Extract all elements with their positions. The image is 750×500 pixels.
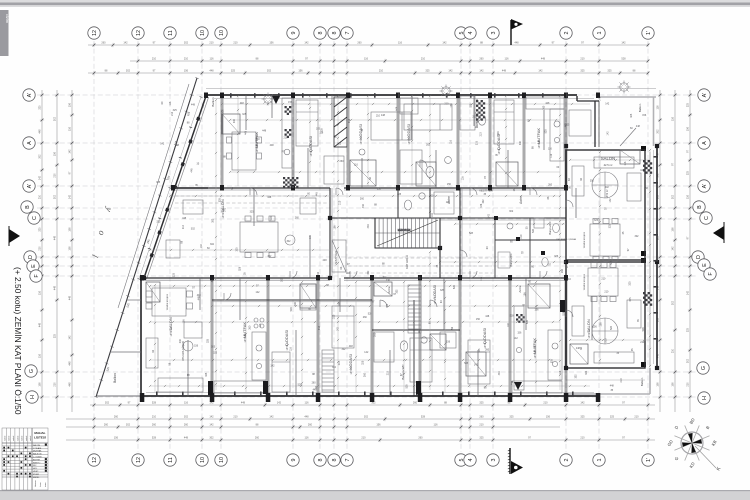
svg-text:12: 12 — [136, 457, 142, 463]
svg-text:448: 448 — [323, 259, 328, 262]
grid bubble left axis B — [21, 201, 33, 213]
svg-text:mahal: mahal — [30, 435, 32, 441]
left dimension chain 3 — [69, 90, 75, 412]
bottom band partition walls — [210, 278, 212, 396]
svg-text:156: 156 — [642, 114, 647, 117]
grid bubble bottom axis 10 — [215, 454, 227, 466]
grid bubble top axis 11 — [164, 27, 176, 39]
svg-text:E: E — [702, 263, 708, 267]
svg-text:302: 302 — [482, 199, 485, 204]
svg-text:9: 9 — [291, 459, 297, 462]
svg-text:302: 302 — [212, 218, 215, 223]
svg-text:142: 142 — [200, 244, 203, 249]
svg-text:cizim: cizim — [5, 14, 10, 24]
svg-text:mahal: mahal — [26, 435, 28, 441]
svg-text:156: 156 — [687, 126, 690, 131]
svg-text:116: 116 — [434, 424, 439, 427]
svg-text:142: 142 — [160, 142, 165, 145]
svg-text:116: 116 — [398, 42, 403, 45]
svg-text:Balkon: Balkon — [113, 373, 117, 383]
svg-text:210: 210 — [580, 58, 585, 61]
grid bubble left axis C — [28, 212, 40, 224]
svg-text:260: 260 — [363, 316, 368, 319]
grid bubble top axis 2 — [560, 27, 572, 39]
svg-text:142: 142 — [514, 337, 519, 340]
svg-text:142: 142 — [687, 290, 690, 295]
svg-text:116: 116 — [431, 194, 435, 197]
svg-text:302: 302 — [396, 289, 399, 294]
svg-text:VEST.: VEST. — [33, 471, 39, 473]
closet and partition details — [146, 95, 640, 396]
svg-text:142: 142 — [209, 416, 214, 419]
svg-text:142: 142 — [507, 322, 510, 327]
svg-text:döseme: döseme — [35, 480, 37, 487]
svg-text:325: 325 — [610, 416, 615, 419]
svg-text:14.52 m²: 14.52 m² — [588, 329, 591, 338]
svg-text:14.52 m²: 14.52 m² — [360, 135, 363, 144]
bottom window chrome bar — [0, 490, 750, 500]
salon block bottom-right walls — [566, 262, 645, 368]
grid bubble left axis E — [27, 260, 39, 272]
svg-text:210: 210 — [543, 402, 548, 405]
svg-text:210: 210 — [348, 118, 351, 123]
svg-text:448: 448 — [267, 196, 272, 199]
svg-text:448: 448 — [610, 384, 615, 387]
structural columns — [140, 93, 659, 403]
svg-text:448: 448 — [54, 285, 57, 290]
svg-text:528: 528 — [239, 266, 242, 271]
grid bubble bottom axis 5 — [455, 454, 467, 466]
svg-text:325: 325 — [222, 109, 225, 114]
grid bubble left axis F — [30, 270, 42, 282]
svg-text:210: 210 — [634, 416, 639, 419]
svg-text:325: 325 — [594, 219, 599, 222]
svg-text:210: 210 — [39, 246, 42, 251]
svg-text:E: E — [31, 264, 37, 268]
svg-text:260: 260 — [357, 42, 362, 45]
svg-text:mahal: mahal — [13, 435, 15, 441]
svg-text:156: 156 — [657, 382, 660, 387]
svg-text:7: 7 — [345, 459, 351, 462]
svg-text:C: C — [704, 216, 710, 220]
svg-text:302: 302 — [191, 227, 196, 230]
site boundary diagonal line — [94, 77, 199, 398]
svg-text:325: 325 — [250, 210, 255, 213]
svg-text:210: 210 — [202, 103, 205, 108]
svg-text:142: 142 — [605, 102, 610, 105]
interior dimension chains — [149, 95, 651, 392]
svg-text:325: 325 — [440, 289, 445, 292]
svg-text:Antre: Antre — [447, 196, 451, 204]
svg-text:448: 448 — [240, 102, 245, 105]
balcony bottom right — [566, 368, 650, 394]
svg-text:260: 260 — [101, 42, 106, 45]
building outer walls — [206, 94, 577, 96]
salon right facade inner line — [649, 152, 651, 366]
svg-text:mahal: mahal — [9, 435, 11, 441]
svg-text:156: 156 — [298, 70, 303, 73]
marker triangle left edge — [9, 226, 20, 246]
svg-text:448: 448 — [54, 235, 57, 240]
svg-text:302: 302 — [184, 42, 189, 45]
svg-text:4: 4 — [468, 459, 474, 462]
dark door jambs bottom wall — [208, 300, 565, 395]
grid bubble top axis 8 — [314, 27, 326, 39]
svg-text:1': 1' — [646, 31, 652, 35]
svg-text:210: 210 — [379, 70, 384, 73]
svg-text:325: 325 — [554, 255, 559, 258]
svg-text:156: 156 — [184, 70, 189, 73]
svg-text:116: 116 — [210, 58, 215, 61]
marker triangle right edge — [713, 222, 724, 243]
svg-text:(+ 2.50 kotu) ZEMİN KAT PLANI: (+ 2.50 kotu) ZEMİN KAT PLANI Ö:1/50 — [13, 267, 23, 415]
svg-text:302: 302 — [364, 416, 369, 419]
svg-text:14.52 m²: 14.52 m² — [310, 147, 313, 156]
svg-text:210: 210 — [233, 42, 238, 45]
svg-text:B: B — [25, 205, 31, 209]
svg-text:325: 325 — [156, 181, 161, 184]
svg-text:528: 528 — [610, 325, 613, 330]
svg-text:156: 156 — [672, 227, 675, 232]
svg-text:A: A — [702, 141, 708, 145]
svg-text:302: 302 — [635, 235, 640, 238]
svg-text:260: 260 — [104, 424, 109, 427]
left dimension chain 1 — [39, 90, 45, 412]
svg-text:448: 448 — [69, 361, 72, 366]
svg-text:156: 156 — [517, 332, 522, 335]
svg-text:260: 260 — [360, 198, 365, 201]
grid bubble bottom axis 8 — [328, 454, 340, 466]
svg-text:156: 156 — [69, 102, 72, 107]
svg-text:325: 325 — [231, 70, 236, 73]
svg-text:Banyo+WC: Banyo+WC — [475, 111, 479, 128]
svg-text:325: 325 — [607, 70, 612, 73]
svg-text:260: 260 — [479, 416, 484, 419]
diagonal boundary dimension texts — [105, 111, 191, 372]
svg-text:OTURMA KÖŞESİ: OTURMA KÖŞESİ — [182, 341, 185, 361]
svg-text:YEMEK KÖŞESİ: YEMEK KÖŞESİ — [583, 231, 586, 248]
svg-text:116: 116 — [418, 329, 421, 333]
grid bubble left axis A — [23, 137, 35, 149]
svg-text:mahal: mahal — [17, 435, 19, 441]
svg-text:302: 302 — [39, 154, 42, 159]
svg-text:302: 302 — [267, 70, 272, 73]
svg-text:302: 302 — [341, 348, 346, 351]
svg-text:116: 116 — [505, 58, 510, 61]
middle band walls — [329, 188, 331, 278]
svg-text:448: 448 — [541, 58, 546, 61]
svg-text:448: 448 — [485, 315, 490, 318]
svg-text:G: G — [29, 369, 35, 373]
door swing arcs — [224, 160, 573, 317]
inner window line top wall — [214, 98, 594, 100]
right dimension chain 2 — [672, 90, 678, 412]
svg-text:325: 325 — [630, 113, 633, 118]
bottom dimension chain 0 — [90, 402, 655, 408]
svg-text:325: 325 — [173, 272, 176, 277]
svg-text:325: 325 — [173, 109, 178, 112]
svg-text:10: 10 — [200, 30, 206, 36]
svg-text:448: 448 — [209, 70, 214, 73]
top-left edge grey tab — [0, 10, 10, 56]
svg-text:302: 302 — [426, 144, 431, 147]
svg-text:528: 528 — [453, 284, 456, 289]
svg-text:260: 260 — [548, 184, 553, 187]
svg-text:142: 142 — [304, 42, 309, 45]
svg-text:325: 325 — [687, 170, 690, 175]
svg-text:14.52 m²: 14.52 m² — [498, 145, 501, 154]
svg-text:MERD.: MERD. — [33, 477, 40, 479]
svg-text:ANTRE: ANTRE — [33, 458, 41, 461]
svg-text:325: 325 — [687, 327, 690, 332]
bath above stairs fixtures — [398, 188, 454, 218]
svg-text:116: 116 — [39, 353, 42, 358]
svg-text:116: 116 — [289, 347, 292, 351]
svg-text:325: 325 — [628, 281, 631, 286]
svg-text:260: 260 — [248, 325, 251, 330]
eave overhang line above top wall — [206, 88, 656, 90]
svg-text:142: 142 — [69, 149, 72, 154]
svg-text:KİLER: KİLER — [33, 473, 40, 476]
balcony top right divider — [620, 128, 636, 146]
bottom dimension chain 2 — [66, 424, 560, 430]
svg-text:Antre: Antre — [387, 286, 391, 294]
balcony top right — [569, 96, 656, 147]
svg-text:448: 448 — [367, 224, 370, 229]
svg-text:302: 302 — [371, 402, 376, 405]
svg-text:116: 116 — [480, 276, 483, 280]
svg-text:325: 325 — [213, 352, 218, 355]
svg-text:142: 142 — [488, 213, 491, 218]
svg-text:12: 12 — [136, 30, 142, 36]
svg-text:142: 142 — [277, 402, 282, 405]
svg-text:528: 528 — [152, 437, 157, 440]
svg-text:448: 448 — [636, 125, 641, 128]
svg-text:210: 210 — [687, 382, 690, 387]
svg-text:325: 325 — [509, 416, 514, 419]
furniture: bottom-right salon sofa — [166, 96, 641, 262]
svg-text:116: 116 — [69, 126, 72, 131]
grid bubble left axis D — [24, 251, 36, 263]
svg-text:142: 142 — [39, 175, 42, 180]
compass rose — [666, 417, 722, 472]
svg-text:210: 210 — [54, 173, 57, 178]
grid bubble top axis 8 — [328, 27, 340, 39]
svg-text:325: 325 — [207, 338, 210, 343]
svg-text:142: 142 — [270, 365, 275, 368]
svg-text:528: 528 — [405, 384, 408, 389]
svg-text:448: 448 — [315, 192, 318, 197]
svg-text:260: 260 — [479, 58, 484, 61]
svg-text:10: 10 — [200, 457, 206, 463]
svg-text:D: D — [696, 255, 702, 259]
svg-text:12: 12 — [92, 457, 98, 463]
svg-text:Balkon: Balkon — [211, 97, 215, 107]
svg-text:tavan: tavan — [44, 482, 47, 487]
svg-text:448: 448 — [182, 217, 187, 220]
grid bubble top axis 1' — [642, 27, 654, 39]
svg-text:210: 210 — [39, 194, 42, 199]
svg-text:156: 156 — [377, 188, 382, 191]
svg-text:156: 156 — [534, 308, 539, 311]
svg-text:8: 8 — [332, 32, 338, 35]
svg-text:VESTİYER: VESTİYER — [333, 250, 338, 266]
grid bubble bottom axis 7 — [341, 454, 353, 466]
svg-text:448: 448 — [69, 382, 72, 387]
svg-text:156: 156 — [450, 103, 453, 108]
svg-text:325: 325 — [39, 105, 42, 110]
svg-text:MAHAL: MAHAL — [34, 431, 45, 435]
svg-text:WC: WC — [33, 465, 37, 467]
svg-text:210: 210 — [54, 382, 57, 387]
svg-text:302: 302 — [286, 240, 291, 243]
svg-text:528: 528 — [290, 307, 293, 312]
svg-text:142: 142 — [609, 198, 612, 203]
svg-text:156: 156 — [567, 187, 572, 190]
svg-text:142: 142 — [69, 335, 72, 340]
svg-text:142: 142 — [474, 363, 479, 366]
dark hatch posts bath — [494, 216, 545, 255]
bottom dimension chain 1 — [66, 416, 655, 422]
svg-text:528: 528 — [152, 402, 157, 405]
svg-text:C: C — [32, 216, 38, 220]
svg-text:260: 260 — [513, 187, 516, 192]
svg-text:325: 325 — [629, 297, 632, 302]
svg-text:528: 528 — [270, 216, 273, 221]
svg-text:260: 260 — [413, 402, 418, 405]
svg-text:302: 302 — [672, 194, 675, 199]
svg-text:156: 156 — [333, 225, 336, 230]
svg-text:10: 10 — [219, 457, 225, 463]
svg-text:156: 156 — [69, 246, 72, 251]
svg-text:14.52 m²: 14.52 m² — [170, 327, 173, 336]
grid bubble top axis 9 — [287, 27, 299, 39]
svg-text:156: 156 — [672, 382, 675, 387]
svg-text:302: 302 — [281, 277, 284, 282]
svg-text:8: 8 — [332, 459, 338, 462]
svg-text:142: 142 — [621, 42, 626, 45]
svg-text:4: 4 — [468, 32, 474, 35]
grid bubble left axis G — [25, 365, 37, 377]
grid bubble right axis G — [697, 362, 709, 374]
svg-text:210: 210 — [672, 348, 675, 353]
svg-text:302: 302 — [519, 140, 522, 145]
svg-text:9: 9 — [291, 32, 297, 35]
svg-text:448: 448 — [304, 416, 309, 419]
svg-text:142: 142 — [209, 402, 214, 405]
svg-text:210: 210 — [580, 437, 585, 440]
balcony wedge bottom left — [110, 300, 141, 352]
grid bubble right axis H — [698, 392, 710, 404]
svg-text:142: 142 — [336, 327, 339, 332]
slanted left facade wall (parallel to boundary) — [144, 96, 209, 279]
svg-text:325: 325 — [361, 360, 364, 365]
slant wall exterior dimension chain — [138, 97, 203, 280]
svg-text:mahal: mahal — [4, 435, 6, 441]
svg-text:116: 116 — [657, 105, 660, 110]
svg-text:325: 325 — [54, 333, 57, 338]
svg-text:116: 116 — [305, 437, 310, 440]
svg-text:210: 210 — [318, 325, 321, 330]
svg-text:3: 3 — [491, 32, 497, 35]
svg-text:260: 260 — [312, 382, 317, 385]
slanted wall window posts — [142, 94, 208, 280]
svg-text:H: H — [702, 396, 708, 400]
top dimension chain 3 — [88, 70, 649, 76]
svg-text:302: 302 — [672, 300, 675, 305]
grid bubble top axis 12 — [132, 27, 144, 39]
svg-text:302: 302 — [54, 194, 57, 199]
grid bubble bottom axis 2 — [560, 454, 572, 466]
svg-text:14.52 m²: 14.52 m² — [286, 341, 289, 350]
svg-text:210: 210 — [339, 200, 342, 205]
svg-text:14.52 m²: 14.52 m² — [434, 295, 437, 304]
svg-text:142: 142 — [364, 351, 369, 354]
svg-text:210: 210 — [620, 378, 623, 383]
grid bubble top axis 10 — [196, 27, 208, 39]
svg-text:210: 210 — [209, 42, 214, 45]
inner window line right wall — [653, 150, 655, 364]
svg-text:Antre: Antre — [518, 285, 522, 293]
svg-text:8: 8 — [318, 459, 324, 462]
svg-text:448: 448 — [262, 130, 267, 133]
svg-text:260: 260 — [184, 424, 189, 427]
svg-text:302: 302 — [687, 358, 690, 363]
svg-text:A': A' — [702, 184, 708, 189]
svg-text:3: 3 — [491, 459, 497, 462]
svg-text:142: 142 — [123, 42, 128, 45]
svg-text:1: 1 — [597, 32, 603, 35]
grid bubble bottom axis 1' — [642, 454, 654, 466]
svg-text:302: 302 — [233, 118, 236, 123]
svg-text:210: 210 — [604, 290, 609, 293]
corridor dashed ceiling lines — [175, 196, 492, 273]
benchmark flag bottom center — [508, 448, 523, 474]
svg-text:142: 142 — [672, 246, 675, 251]
grid bubble top axis 4 — [464, 27, 476, 39]
svg-text:448: 448 — [386, 279, 391, 282]
svg-text:11: 11 — [168, 457, 174, 463]
svg-text:210: 210 — [184, 58, 189, 61]
svg-text:325: 325 — [39, 227, 42, 232]
svg-text:325: 325 — [205, 372, 208, 377]
grid bubble bottom axis 9 — [287, 454, 299, 466]
svg-text:448: 448 — [184, 437, 189, 440]
svg-text:H: H — [30, 395, 36, 399]
svg-text:302: 302 — [509, 210, 514, 213]
svg-text:Balkon: Balkon — [640, 377, 644, 386]
svg-text:116: 116 — [305, 402, 310, 405]
svg-text:448: 448 — [270, 144, 275, 147]
svg-text:528: 528 — [526, 319, 529, 324]
svg-text:14.52 m²: 14.52 m² — [534, 349, 537, 358]
svg-text:325: 325 — [580, 416, 585, 419]
right-middle bath fixtures — [498, 218, 559, 268]
svg-text:448: 448 — [338, 301, 341, 306]
svg-text:B: B — [697, 205, 703, 209]
svg-text:260: 260 — [152, 424, 157, 427]
mahal listesi schedule table — [2, 428, 48, 490]
right dimension chain 1 — [657, 90, 663, 412]
svg-text:Banyo+WC: Banyo+WC — [401, 364, 405, 380]
svg-text:528: 528 — [642, 327, 645, 332]
svg-text:156: 156 — [376, 424, 381, 427]
svg-text:1: 1 — [597, 459, 603, 462]
grid bubble bottom axis 8 — [314, 454, 326, 466]
plant symbol — [440, 85, 453, 98]
svg-text:156: 156 — [54, 151, 57, 156]
grid bubble top axis 5 — [455, 27, 467, 39]
